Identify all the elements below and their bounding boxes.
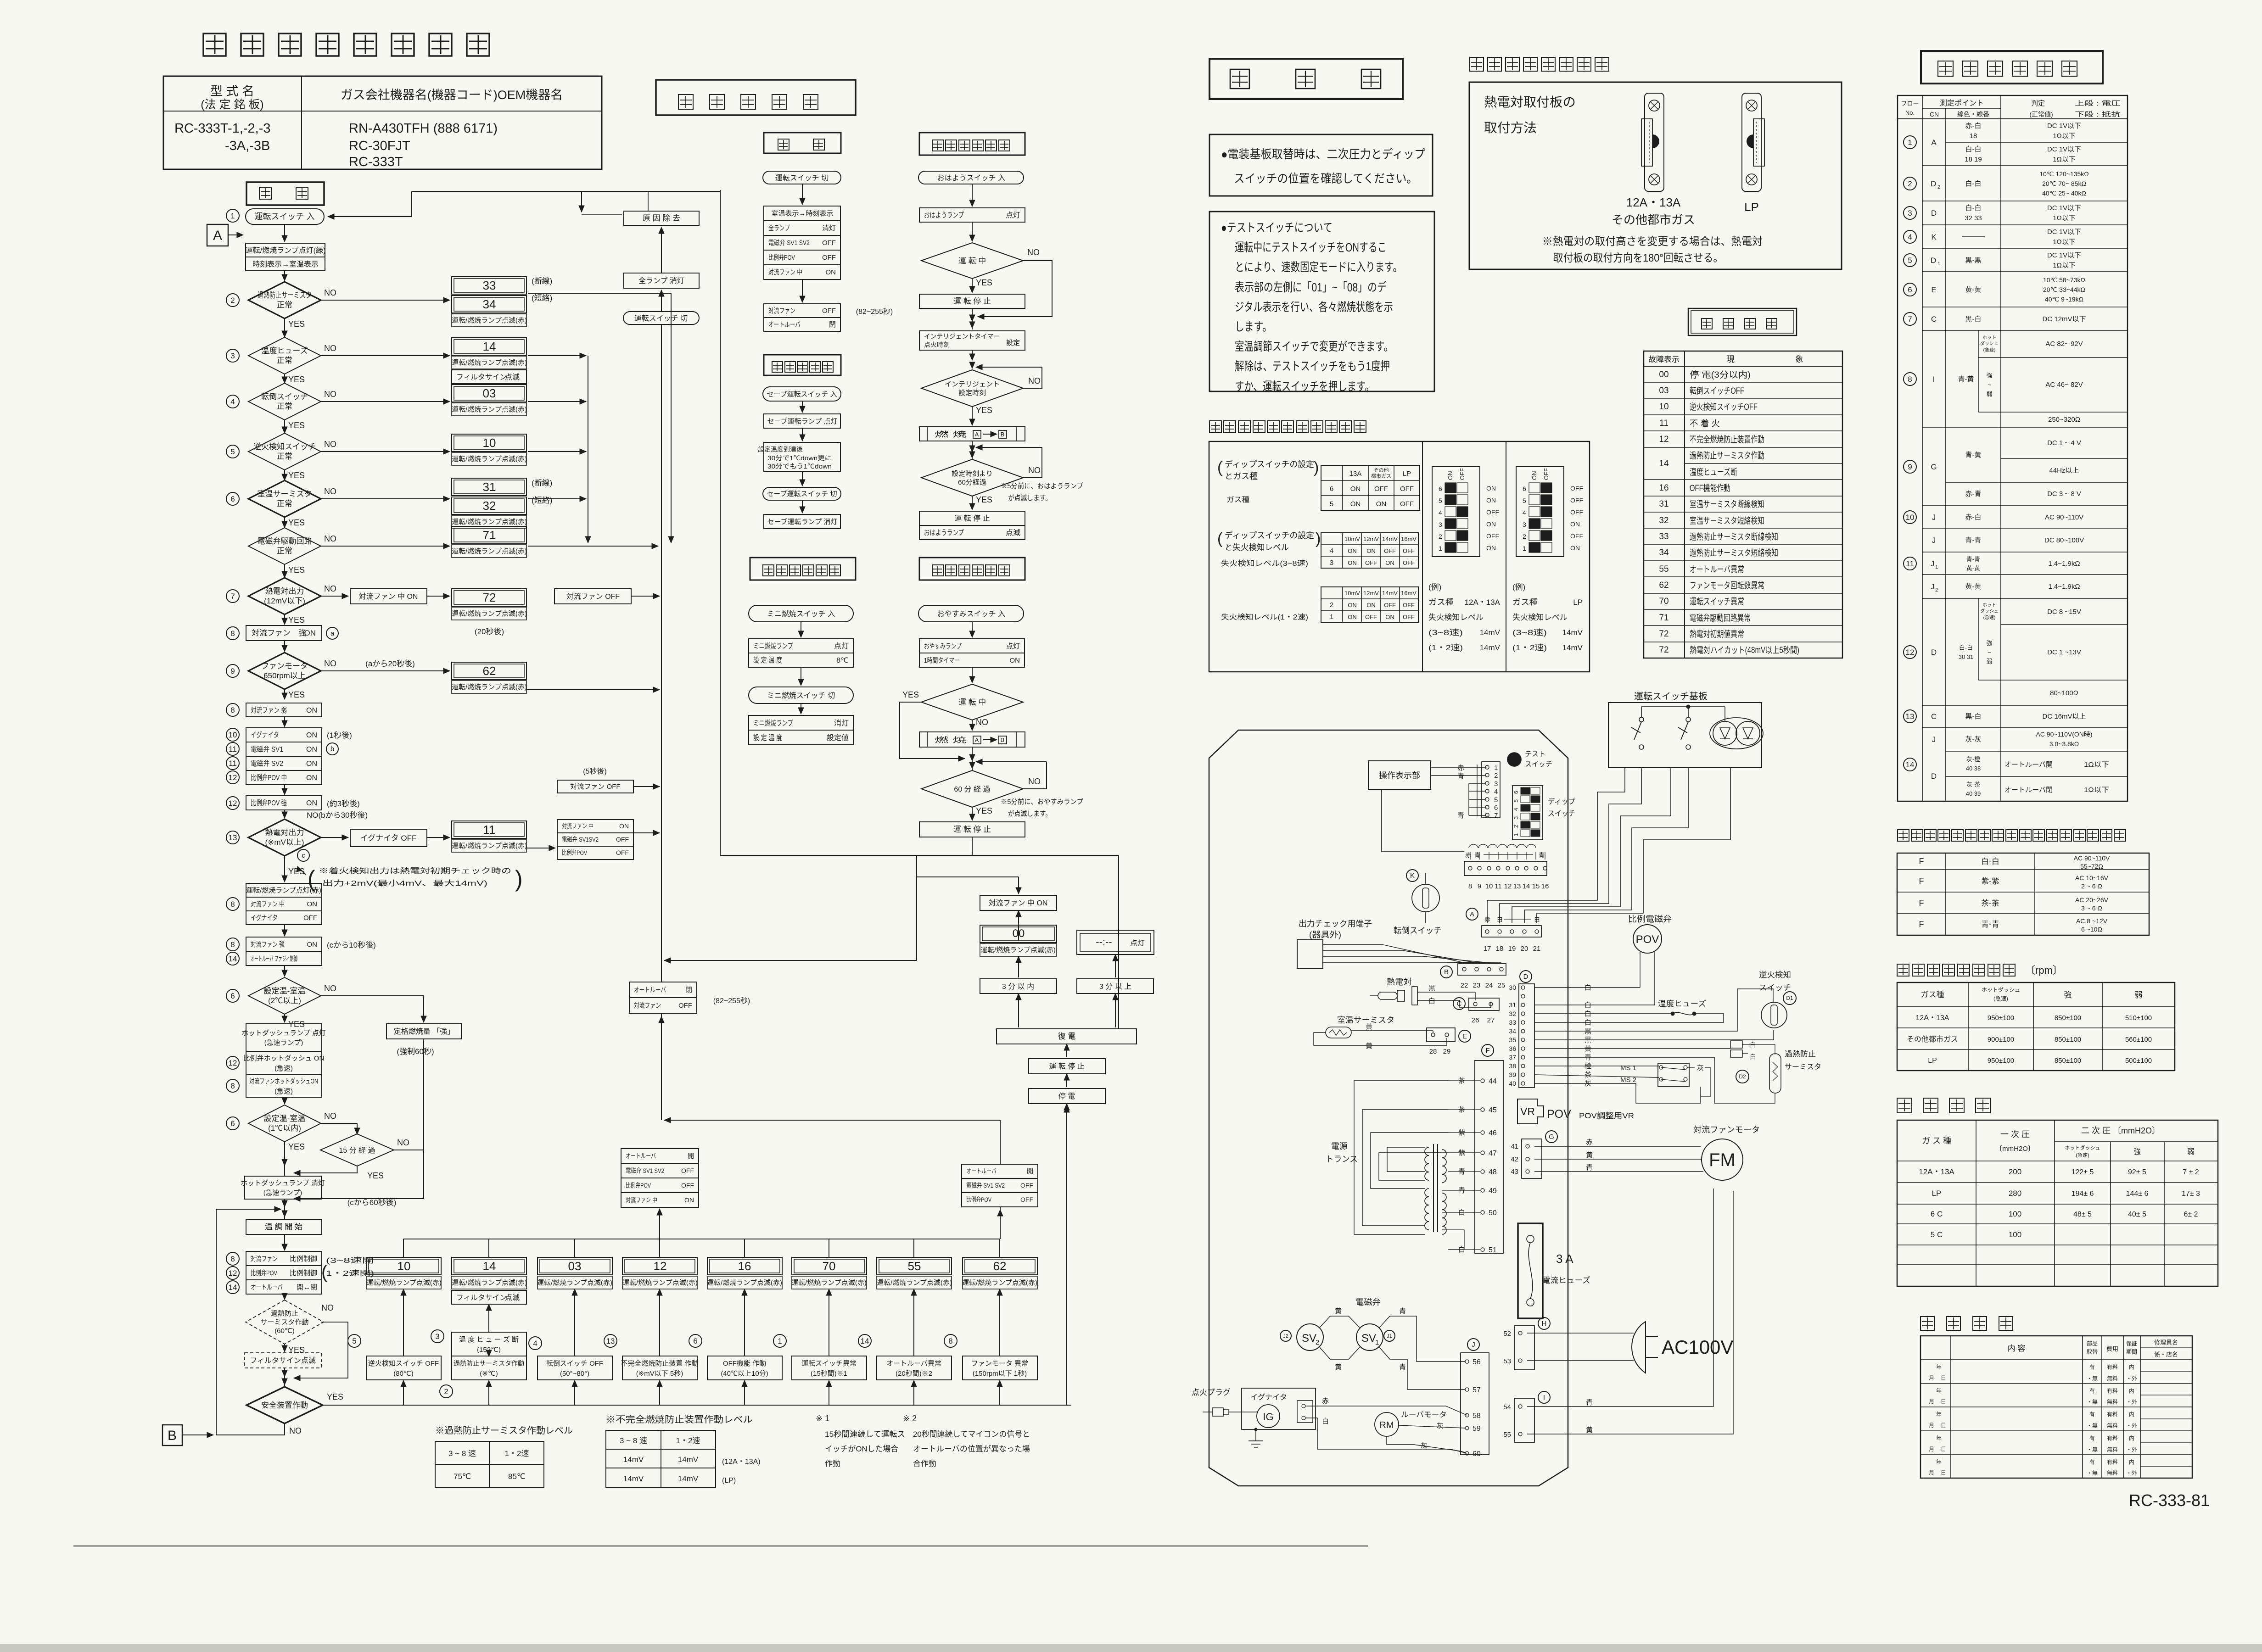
svg-text:B: B [1001, 431, 1005, 438]
svg-text:122± 5: 122± 5 [2072, 1168, 2094, 1176]
svg-text:対流ファン 弱: 対流ファン 弱 [251, 706, 287, 714]
svg-text:対流ファン OFF: 対流ファン OFF [566, 592, 620, 601]
svg-text:1: 1 [1330, 613, 1333, 621]
svg-text:6: 6 [1494, 804, 1498, 812]
svg-text:D: D [1931, 648, 1937, 657]
svg-text:ON: ON [1376, 500, 1387, 508]
svg-text:60: 60 [1473, 1450, 1481, 1458]
svg-text:14: 14 [229, 954, 237, 963]
svg-text:510±100: 510±100 [2125, 1014, 2152, 1022]
svg-text:(20秒間)※2: (20秒間)※2 [896, 1370, 932, 1378]
svg-text:出力+2mV(最小4mV、最大14mV): 出力+2mV(最小4mV、最大14mV) [322, 879, 487, 887]
svg-text:LP: LP [1932, 1189, 1942, 1198]
svg-text:29: 29 [1443, 1048, 1451, 1055]
svg-text:イッチがONした場合: イッチがONした場合 [825, 1445, 898, 1453]
svg-text:灰-茶: 灰-茶 [1966, 781, 1980, 788]
svg-text:月: 月 [1929, 1469, 1934, 1476]
svg-text:6: 6 [230, 495, 235, 503]
svg-text:OFF: OFF [1570, 508, 1583, 516]
svg-text:No.: No. [1905, 109, 1915, 116]
svg-text:5: 5 [1513, 799, 1519, 803]
svg-text:ON: ON [306, 746, 317, 753]
svg-text:58: 58 [1473, 1412, 1481, 1420]
svg-text:62: 62 [483, 664, 496, 678]
svg-text:34: 34 [1659, 548, 1669, 558]
svg-text:OFF: OFF [1570, 497, 1583, 504]
svg-text:14: 14 [483, 1259, 496, 1273]
svg-text:(50°~80°): (50°~80°) [560, 1370, 589, 1378]
svg-text:サーミスタ作動: サーミスタ作動 [260, 1318, 308, 1326]
svg-text:8: 8 [230, 1082, 235, 1090]
svg-text:NO: NO [1028, 777, 1041, 786]
svg-text:35: 35 [1509, 1036, 1516, 1044]
svg-text:LP: LP [1573, 598, 1583, 607]
svg-text:(例): (例) [1428, 583, 1441, 592]
svg-text:が点滅します。: が点滅します。 [1008, 810, 1052, 818]
svg-text:青: 青 [1457, 772, 1464, 780]
svg-text:NO: NO [324, 534, 336, 543]
svg-text:スイッチの位置を確認してください。: スイッチの位置を確認してください。 [1234, 172, 1417, 185]
svg-text:設定温-室温: 設定温-室温 [264, 987, 306, 995]
svg-text:AC 90~110V: AC 90~110V [2045, 513, 2083, 521]
svg-text:85℃: 85℃ [508, 1472, 526, 1481]
svg-text:200: 200 [2009, 1167, 2021, 1176]
svg-text:期間: 期間 [2126, 1349, 2137, 1355]
svg-text:運 転 中: 運 転 中 [958, 257, 986, 265]
svg-text:(正常値): (正常値) [2029, 111, 2053, 118]
svg-text:運転/燃焼ランプ点滅(赤): 運転/燃焼ランプ点滅(赤) [537, 1278, 612, 1287]
svg-text:14mV: 14mV [623, 1455, 644, 1464]
svg-text:NO: NO [397, 1138, 409, 1147]
svg-text:全ランプ: 全ランプ [768, 224, 790, 232]
svg-text:ミニ燃焼ランプ: ミニ燃焼ランプ [753, 642, 793, 650]
svg-text:40 39: 40 39 [1966, 790, 1981, 797]
svg-text:紫-紫: 紫-紫 [1981, 877, 1999, 886]
svg-text:セーブ運転ランプ 消灯: セーブ運転ランプ 消灯 [767, 518, 838, 526]
svg-text:その他: その他 [1374, 467, 1389, 473]
svg-text:J: J [1931, 582, 1935, 591]
svg-text:(5秒後): (5秒後) [583, 767, 607, 776]
svg-text:(※℃): (※℃) [480, 1370, 498, 1378]
svg-text:27: 27 [1487, 1016, 1495, 1024]
svg-text:対流ファン 中 ON: 対流ファン 中 ON [359, 592, 418, 601]
svg-text:内: 内 [2129, 1364, 2134, 1370]
svg-text:日: 日 [1941, 1469, 1946, 1476]
svg-text:ファンモータ回転数異常: ファンモータ回転数異常 [1690, 580, 1764, 591]
svg-text:ガス種: ガス種 [1226, 496, 1249, 504]
svg-text:閉: 閉 [685, 986, 692, 994]
svg-text:過熱防止: 過熱防止 [271, 1310, 298, 1317]
svg-text:(3~8速): (3~8速) [1512, 628, 1547, 637]
svg-text:DC 1 ~13V: DC 1 ~13V [2047, 648, 2081, 656]
svg-text:YES: YES [976, 406, 992, 415]
svg-text:12: 12 [1659, 435, 1669, 444]
svg-text:その他都市ガス: その他都市ガス [1907, 1035, 1958, 1044]
svg-text:黄: 黄 [1586, 1151, 1593, 1159]
svg-text:OFF: OFF [822, 239, 836, 247]
svg-text:1.4~1.9kΩ: 1.4~1.9kΩ [2048, 583, 2080, 591]
svg-text:無料: 無料 [2107, 1422, 2118, 1429]
svg-text:有料: 有料 [2107, 1459, 2118, 1465]
svg-text:(器具外): (器具外) [1309, 930, 1341, 939]
svg-text:取替: 取替 [2087, 1349, 2098, 1355]
svg-text:18: 18 [1970, 132, 1977, 140]
svg-text:対流ファンホットダッシュON: 対流ファンホットダッシュON [249, 1077, 318, 1085]
svg-text:a: a [330, 630, 335, 637]
svg-text:14: 14 [229, 1283, 237, 1292]
svg-text:K: K [1410, 872, 1415, 880]
svg-text:J: J [1932, 536, 1936, 545]
svg-text:NO: NO [321, 1303, 334, 1312]
svg-text:6: 6 [230, 1119, 235, 1128]
svg-text:NO: NO [324, 1111, 336, 1121]
svg-text:44: 44 [1489, 1077, 1497, 1085]
svg-text:おやすみランプ: おやすみランプ [924, 642, 962, 650]
svg-text:日: 日 [1941, 1446, 1946, 1452]
svg-text:A: A [1470, 910, 1474, 918]
svg-text:100: 100 [2009, 1210, 2021, 1218]
svg-text:オートルーバ: オートルーバ [626, 1152, 656, 1160]
svg-text:茶: 茶 [1585, 1071, 1591, 1079]
svg-text:950±100: 950±100 [1988, 1057, 2014, 1065]
svg-text:1・2速: 1・2速 [505, 1449, 529, 1458]
svg-text:出力チェック用端子: 出力チェック用端子 [1299, 919, 1372, 928]
svg-text:ミニ燃焼ランプ: ミニ燃焼ランプ [753, 719, 793, 727]
svg-text:フィルタサイン点滅: フィルタサイン点滅 [250, 1356, 316, 1365]
svg-text:(急速ランプ): (急速ランプ) [263, 1189, 302, 1197]
svg-text:5: 5 [1439, 497, 1442, 504]
svg-text:有: 有 [2089, 1411, 2095, 1418]
svg-text:75℃: 75℃ [454, 1472, 471, 1481]
svg-text:36: 36 [1509, 1045, 1516, 1052]
svg-text:14mV: 14mV [1480, 628, 1501, 637]
svg-text:DC 1V以下: DC 1V以下 [2047, 122, 2081, 130]
svg-text:10: 10 [1659, 402, 1669, 412]
svg-text:運転スイッチ異常: 運転スイッチ異常 [1690, 597, 1744, 607]
svg-text:対流ファン 中: 対流ファン 中 [768, 268, 802, 276]
svg-text:運転/燃焼ランプ点滅(赤): 運転/燃焼ランプ点滅(赤) [962, 1278, 1037, 1287]
svg-text:10mV: 10mV [1344, 536, 1360, 542]
svg-text:黄-黄: 黄-黄 [1966, 565, 1980, 572]
svg-text:点滅: 点滅 [1006, 529, 1020, 537]
svg-text:運転/燃焼ランプ点滅(赤): 運転/燃焼ランプ点滅(赤) [707, 1278, 782, 1287]
svg-text:ON: ON [306, 774, 317, 782]
svg-text:弱: 弱 [1986, 391, 1992, 397]
svg-text:逆火検知スイッチ: 逆火検知スイッチ [253, 442, 316, 451]
svg-text:運転/燃焼ランプ点滅(赤): 運転/燃焼ランプ点滅(赤) [452, 1278, 527, 1287]
svg-text:3: 3 [1439, 521, 1442, 528]
svg-text:解除は、テストスイッチをもう1度押: 解除は、テストスイッチをもう1度押 [1235, 359, 1390, 373]
svg-text:白: 白 [1497, 916, 1503, 923]
svg-text:ホットダッシュ: ホットダッシュ [2065, 1144, 2100, 1151]
svg-text:OFF: OFF [616, 849, 629, 856]
svg-text:7: 7 [1494, 812, 1498, 820]
svg-text:開↔閉: 開↔閉 [297, 1284, 317, 1291]
svg-text:ディップスイッチの設定: ディップスイッチの設定 [1225, 460, 1314, 469]
svg-text:14: 14 [1906, 760, 1915, 769]
svg-text:有: 有 [2089, 1364, 2095, 1370]
svg-text:10: 10 [229, 731, 237, 739]
svg-text:黒-白: 黒-白 [1965, 315, 1982, 323]
svg-text:(例): (例) [1512, 583, 1525, 592]
svg-text:ディップ: ディップ [1548, 797, 1575, 806]
svg-text:31: 31 [1659, 499, 1669, 509]
svg-text:9: 9 [230, 667, 235, 675]
svg-text:※ 1: ※ 1 [816, 1414, 829, 1423]
svg-text:イグナイタ: イグナイタ [251, 731, 279, 739]
svg-text:失火検知レベル(3~8速): 失火検知レベル(3~8速) [1221, 559, 1308, 568]
svg-text:●テストスイッチについて: ●テストスイッチについて [1221, 221, 1333, 234]
svg-text:おやすみスイッチ 入: おやすみスイッチ 入 [937, 610, 1005, 618]
svg-text:SV: SV [1302, 1332, 1316, 1345]
svg-text:12mV: 12mV [1363, 536, 1379, 542]
svg-text:MS 2: MS 2 [1620, 1076, 1636, 1084]
svg-text:赤: 赤 [1322, 1397, 1329, 1405]
svg-text:DC 16mV以上: DC 16mV以上 [2042, 713, 2086, 720]
svg-text:AC 90~110V: AC 90~110V [2074, 854, 2110, 862]
svg-text:12: 12 [1504, 882, 1512, 890]
svg-text:NO: NO [324, 288, 336, 297]
svg-text:~: ~ [1988, 649, 1991, 656]
svg-text:8: 8 [230, 629, 235, 638]
svg-text:4: 4 [1494, 788, 1498, 796]
svg-text:5: 5 [1908, 256, 1912, 265]
svg-text:点火プラグ: 点火プラグ [1192, 1388, 1231, 1397]
svg-text:b: b [330, 745, 334, 753]
svg-text:燃 焼: 燃 焼 [935, 736, 967, 744]
svg-text:おはようスイッチ 入: おはようスイッチ 入 [937, 174, 1005, 182]
svg-text:黄: 黄 [1335, 1307, 1342, 1315]
svg-text:DC 3 ~ 8 V: DC 3 ~ 8 V [2047, 490, 2081, 498]
svg-text:16: 16 [738, 1259, 751, 1273]
svg-text:対流ファン 中: 対流ファン 中 [562, 822, 593, 830]
svg-text:900±100: 900±100 [1988, 1036, 2014, 1044]
svg-text:5: 5 [1523, 497, 1526, 504]
svg-text:1: 1 [1523, 545, 1526, 552]
svg-text:J: J [1472, 1341, 1475, 1349]
svg-text:(: ( [1217, 530, 1223, 547]
svg-text:(82~255秒): (82~255秒) [856, 307, 893, 316]
svg-text:転倒スイッチ: 転倒スイッチ [1394, 926, 1442, 935]
svg-text:正常: 正常 [277, 547, 292, 555]
svg-text:K: K [1931, 233, 1937, 241]
svg-text:フロー: フロー [1901, 100, 1919, 107]
svg-text:6± 2: 6± 2 [2184, 1211, 2198, 1218]
svg-text:10: 10 [1906, 513, 1915, 522]
svg-text:OFF: OFF [1570, 532, 1583, 540]
svg-text:14mV: 14mV [623, 1474, 644, 1483]
svg-text:操作表示部: 操作表示部 [1379, 771, 1420, 780]
svg-text:電磁弁 SV1 SV2: 電磁弁 SV1 SV2 [768, 239, 810, 247]
svg-text:灰-橙: 灰-橙 [1966, 756, 1980, 763]
svg-text:運転/燃焼ランプ点滅(赤): 運転/燃焼ランプ点滅(赤) [452, 609, 527, 618]
svg-text:YES: YES [976, 806, 992, 815]
svg-text:上段 : 電圧: 上段 : 電圧 [2075, 100, 2121, 107]
svg-text:温度ヒューズ: 温度ヒューズ [1658, 999, 1706, 1008]
svg-text:(2℃以上): (2℃以上) [268, 996, 301, 1005]
svg-text:13: 13 [229, 833, 237, 842]
svg-text:850±100: 850±100 [2055, 1036, 2081, 1044]
svg-text:年: 年 [1936, 1435, 1942, 1441]
svg-text:14: 14 [1659, 459, 1669, 469]
svg-text:39: 39 [1509, 1071, 1516, 1078]
svg-text:(急速): (急速) [2076, 1152, 2089, 1158]
svg-text:15秒間連続して運転ス: 15秒間連続して運転ス [825, 1430, 905, 1439]
svg-text:(1・2速): (1・2速) [1428, 643, 1463, 652]
svg-text:白-白: 白-白 [1981, 857, 1999, 866]
svg-text:34: 34 [1509, 1027, 1516, 1035]
svg-text:(1℃以内): (1℃以内) [268, 1124, 301, 1133]
svg-text:OFF: OFF [1570, 485, 1583, 492]
svg-text:12mV: 12mV [1363, 590, 1379, 597]
svg-text:ジタル表示を行い、各々燃焼状態を示: ジタル表示を行い、各々燃焼状態を示 [1235, 300, 1393, 314]
svg-text:14: 14 [483, 340, 496, 353]
svg-text:と失火検知レベル: と失火検知レベル [1225, 543, 1289, 552]
svg-text:YES: YES [288, 375, 305, 384]
svg-text:ON: ON [1348, 547, 1357, 554]
svg-text:電磁弁 SV1: 電磁弁 SV1 [251, 745, 283, 753]
svg-text:12: 12 [229, 1269, 237, 1278]
svg-text:※不完全燃焼防止装置作動レベル: ※不完全燃焼防止装置作動レベル [606, 1414, 753, 1425]
svg-text:1・2速: 1・2速 [676, 1436, 700, 1445]
svg-text:51: 51 [1489, 1246, 1497, 1254]
svg-text:144± 6: 144± 6 [2126, 1190, 2149, 1198]
svg-text:年: 年 [1936, 1411, 1942, 1418]
svg-text:灰: 灰 [1437, 1422, 1444, 1430]
svg-text:〔rpm〕: 〔rpm〕 [2025, 965, 2063, 976]
svg-text:950±100: 950±100 [1988, 1014, 2014, 1022]
svg-text:D: D [1931, 772, 1937, 781]
svg-text:都市ガス: 都市ガス [1371, 473, 1391, 479]
svg-text:失火検知レベル: 失火検知レベル [1428, 613, 1484, 622]
svg-text:1Ω以下: 1Ω以下 [2053, 262, 2076, 269]
svg-text:20℃ 70~ 85kΩ: 20℃ 70~ 85kΩ [2042, 180, 2086, 187]
svg-text:62: 62 [1659, 580, 1669, 590]
svg-text:設 定 温 度: 設 定 温 度 [753, 656, 782, 664]
svg-text:-3A,-3B: -3A,-3B [225, 139, 270, 153]
svg-text:IG: IG [1263, 1411, 1273, 1423]
svg-text:・外: ・外 [2126, 1399, 2137, 1405]
svg-text:ガス種: ガス種 [1428, 598, 1454, 607]
svg-text:6: 6 [1439, 485, 1442, 492]
svg-text:運転スイッチ 入: 運転スイッチ 入 [254, 212, 314, 221]
svg-text:青-青: 青-青 [1981, 920, 1999, 929]
svg-text:が点滅します。: が点滅します。 [1008, 494, 1052, 502]
svg-text:ルーバモータ: ルーバモータ [1401, 1411, 1447, 1419]
svg-text:点火時刻: 点火時刻 [924, 341, 950, 348]
svg-text:1Ω以下: 1Ω以下 [2084, 786, 2109, 794]
svg-text:開: 開 [1027, 1167, 1033, 1175]
svg-text:無料: 無料 [2107, 1469, 2118, 1476]
svg-text:A: A [1931, 138, 1937, 147]
svg-text:30: 30 [1509, 984, 1516, 991]
svg-text:): ) [1316, 530, 1321, 547]
svg-text:対流ファン: 対流ファン [252, 629, 291, 637]
svg-text:取付板の取付方向を180°回転させる。: 取付板の取付方向を180°回転させる。 [1553, 252, 1723, 264]
svg-text:AC 8 ~12V: AC 8 ~12V [2076, 917, 2108, 925]
svg-text:50: 50 [1489, 1209, 1497, 1217]
svg-text:J: J [1932, 513, 1936, 522]
svg-text:白-白: 白-白 [1959, 644, 1973, 651]
svg-text:DC 8 ~15V: DC 8 ~15V [2047, 608, 2081, 616]
svg-text:運転中にテストスイッチをONするこ: 運転中にテストスイッチをONするこ [1235, 240, 1387, 254]
svg-text:(82~255秒): (82~255秒) [713, 997, 750, 1005]
svg-text:D2: D2 [1739, 1073, 1746, 1080]
svg-text:黄: 黄 [1366, 1023, 1372, 1031]
svg-text:有料: 有料 [2107, 1388, 2118, 1394]
svg-text:有料: 有料 [2107, 1435, 2118, 1441]
svg-text:13: 13 [1906, 712, 1915, 721]
svg-text:92± 5: 92± 5 [2128, 1168, 2146, 1176]
svg-text:運転/燃焼ランプ点滅(赤): 運転/燃焼ランプ点滅(赤) [791, 1278, 867, 1287]
svg-text:16mV: 16mV [1401, 536, 1417, 542]
svg-text:12: 12 [654, 1259, 667, 1273]
svg-text:2: 2 [230, 296, 235, 305]
svg-text:NO: NO [1028, 466, 1041, 475]
svg-text:53: 53 [1503, 1357, 1511, 1365]
svg-text:YES: YES [288, 565, 305, 575]
svg-text:温 度 ヒ ュ ー ズ 断: 温 度 ヒ ュ ー ズ 断 [459, 1336, 519, 1344]
svg-text:点灯: 点灯 [834, 642, 849, 650]
svg-text:49: 49 [1489, 1187, 1497, 1195]
svg-text:72: 72 [1659, 645, 1669, 655]
svg-text:32: 32 [1509, 1010, 1516, 1017]
svg-text:2: 2 [1316, 1339, 1319, 1346]
svg-text:(80℃): (80℃) [393, 1370, 414, 1378]
svg-text:3 分 以 内: 3 分 以 内 [1002, 982, 1034, 991]
svg-text:白-白: 白-白 [1965, 180, 1982, 188]
svg-text:熱電対出力: 熱電対出力 [265, 828, 304, 837]
svg-text:ON: ON [1531, 471, 1538, 480]
svg-text:DC 1V以下: DC 1V以下 [2047, 228, 2081, 236]
svg-text:LP: LP [1403, 470, 1411, 478]
svg-text:3.0~3.8kΩ: 3.0~3.8kΩ [2049, 740, 2079, 748]
svg-text:1Ω以下: 1Ω以下 [2084, 761, 2109, 769]
svg-text:G: G [1931, 463, 1937, 471]
svg-text:点滅: 点滅 [505, 1294, 520, 1302]
svg-text:●電装基板取替時は、二次圧力とディップ: ●電装基板取替時は、二次圧力とディップ [1221, 147, 1425, 161]
svg-text:YES: YES [288, 1142, 305, 1151]
svg-text:D: D [1523, 973, 1529, 981]
svg-text:B: B [168, 1428, 177, 1443]
svg-text:ミニ燃焼スイッチ 切: ミニ燃焼スイッチ 切 [767, 692, 835, 700]
svg-text:過熱防止サーミスタ: 過熱防止サーミスタ [258, 291, 312, 300]
svg-text:48± 5: 48± 5 [2073, 1211, 2092, 1218]
svg-text:ON: ON [1348, 614, 1357, 620]
svg-text:23: 23 [1473, 982, 1481, 989]
svg-text:強: 強 [1986, 372, 1992, 379]
svg-text:日: 日 [1941, 1422, 1946, 1429]
svg-text:10mV: 10mV [1344, 590, 1360, 597]
svg-text:白-白: 白-白 [1965, 145, 1982, 153]
svg-text:運転/燃焼ランプ点滅(赤): 運転/燃焼ランプ点滅(赤) [366, 1278, 442, 1287]
svg-text:月: 月 [1929, 1446, 1934, 1452]
svg-text:15 分 経 過: 15 分 経 過 [339, 1146, 375, 1155]
svg-text:OFF: OFF [1543, 468, 1550, 480]
svg-text:比例電磁弁: 比例電磁弁 [1628, 915, 1672, 924]
svg-text:ON: ON [1570, 520, 1580, 528]
svg-text:テスト: テスト [1525, 750, 1545, 758]
svg-text:(急速): (急速) [1983, 347, 1996, 353]
svg-text:温度ヒューズ断: 温度ヒューズ断 [1690, 467, 1737, 477]
svg-text:電磁弁駆動回路: 電磁弁駆動回路 [258, 537, 312, 546]
svg-text:C: C [1931, 712, 1937, 721]
svg-text:白-白: 白-白 [1965, 204, 1982, 212]
svg-text:55: 55 [908, 1259, 921, 1273]
svg-text:3 ~ 8 速: 3 ~ 8 速 [448, 1449, 476, 1458]
svg-text:(短絡): (短絡) [532, 294, 552, 302]
svg-text:燃 焼: 燃 焼 [935, 430, 967, 439]
